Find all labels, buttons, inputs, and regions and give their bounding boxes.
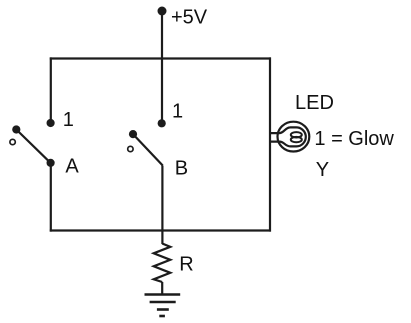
wire from switch B pole down through box bottom to resistor <box>161 166 163 245</box>
LED lamp Y: outer bulb circle <box>278 122 310 152</box>
svg-text:1 = Glow: 1 = Glow <box>314 128 394 150</box>
wire box bottom <box>50 229 271 231</box>
svg-text:Y: Y <box>316 159 329 181</box>
wire from +5V down to switch B top terminal <box>161 11 163 123</box>
svg-text:A: A <box>65 156 79 178</box>
wire box left edge upper segment <box>50 57 52 123</box>
svg-text:1: 1 <box>63 109 74 131</box>
wire box left edge lower segment <box>50 163 52 232</box>
svg-text:R: R <box>179 253 193 275</box>
svg-text:LED: LED <box>295 92 334 114</box>
wire box right edge <box>269 57 271 231</box>
wire box top <box>50 57 271 59</box>
resistor R zigzag <box>154 244 171 283</box>
wire resistor to ground <box>161 282 163 295</box>
svg-text:B: B <box>175 158 188 180</box>
LED lamp Y: filament coil <box>291 132 302 142</box>
svg-text:+5V: +5V <box>171 7 208 29</box>
svg-text:1: 1 <box>172 100 183 122</box>
switch B <box>128 119 166 165</box>
node +5V supply dot <box>158 7 167 16</box>
ground <box>145 295 181 317</box>
switch A <box>10 119 55 167</box>
LED lamp Y: stem and inner filament loop <box>270 127 306 146</box>
